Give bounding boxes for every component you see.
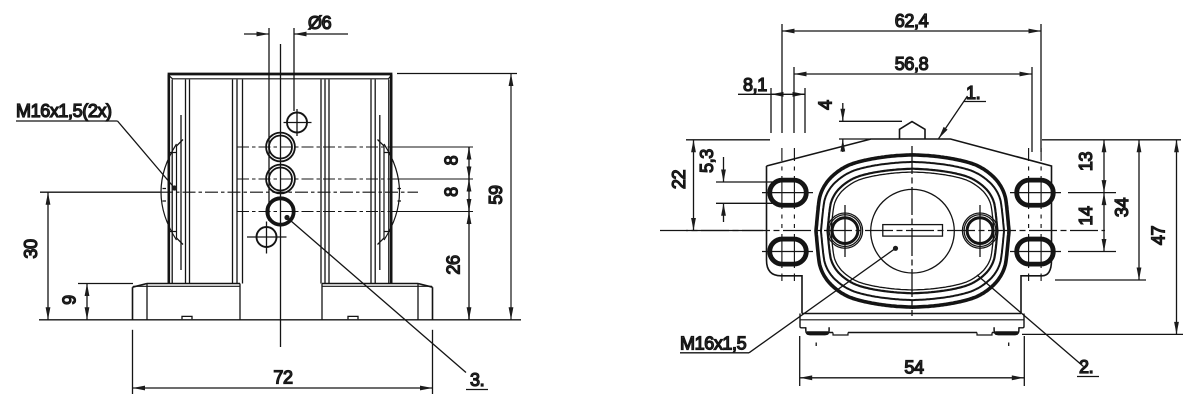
left boss steps	[163, 140, 184, 245]
flange right chamfer	[418, 284, 433, 288]
top tab	[900, 122, 926, 139]
dim 47 bottom extension	[1022, 333, 1183, 335]
body outline top	[168, 73, 393, 76]
svg-text:14: 14	[1076, 206, 1096, 226]
dim 14 line	[1103, 193, 1105, 252]
corner holes horizontal centerline top	[762, 192, 1061, 194]
flange left chamfer	[133, 284, 148, 288]
corner hole TL outer	[769, 179, 808, 206]
label M16x1,5(2x) leader dot	[172, 185, 177, 190]
corner holes vertical centerlines left	[782, 148, 795, 281]
foot left	[806, 327, 829, 334]
dim 13 line	[1103, 140, 1105, 193]
right boss arc	[384, 144, 400, 240]
label 2 leader	[977, 275, 1084, 367]
label 3 leader dot	[284, 215, 289, 220]
base notch right	[977, 333, 992, 336]
small circle bottom-left crosshair	[247, 222, 287, 254]
right column inner lines	[371, 80, 389, 284]
dim 22 top extension	[686, 139, 770, 141]
dia6 right extension line	[293, 28, 295, 111]
body top inner line	[169, 76, 391, 79]
svg-text:30: 30	[21, 239, 41, 259]
label 3 underline	[466, 389, 488, 391]
left boss chord	[176, 146, 178, 238]
circle C3 thick	[267, 198, 293, 224]
base left edge	[800, 314, 806, 328]
gasket ring outer	[816, 155, 1009, 307]
dim arrows at 147	[468, 147, 470, 160]
flange plate outline	[767, 139, 1052, 314]
svg-text:5,3: 5,3	[697, 149, 717, 173]
flange top edge left block	[147, 283, 240, 285]
foot centerline ticks	[816, 343, 1009, 347]
svg-text:13: 13	[1076, 152, 1096, 172]
dim 56,8 right extension	[1031, 67, 1033, 152]
dim 56,8 left extension	[793, 67, 795, 133]
dim 54 right extension	[1023, 336, 1025, 386]
dim 72 left extension	[132, 330, 134, 394]
svg-text:M16x1,5(2x): M16x1,5(2x)	[16, 101, 112, 121]
main vertical centerline	[911, 146, 913, 316]
svg-text:34: 34	[1112, 198, 1132, 218]
left boss base edge	[180, 115, 182, 270]
dim 4 line lower arrow	[842, 139, 844, 152]
flange top edge right block	[322, 283, 418, 285]
foot right	[994, 327, 1019, 334]
flange top inner line right	[322, 285, 432, 287]
port right circles	[962, 213, 997, 248]
flange right inner vertical	[417, 284, 419, 320]
dia6 dimension line right part	[294, 33, 348, 35]
gasket ring 3	[828, 169, 998, 294]
dim 8,1 extensions	[771, 88, 805, 133]
flange left inner vertical	[146, 284, 148, 320]
dim 34 bottom extension	[1055, 279, 1146, 281]
base notch left	[833, 333, 848, 336]
dim 22 line	[693, 140, 695, 231]
port left circles	[827, 213, 862, 248]
dim 4 face extension	[839, 138, 871, 140]
corner hole TR outer	[1016, 179, 1055, 206]
hole c3 centerline	[237, 211, 394, 213]
right boss base edge	[379, 115, 381, 270]
dim 22 bottom extension	[686, 230, 763, 232]
part centerline dashed through body	[160, 191, 418, 193]
base block top line	[802, 313, 1021, 315]
gasket ring 4	[831, 172, 994, 290]
small circle top-right	[287, 113, 307, 133]
dim arrows at 179	[468, 166, 470, 179]
dia6 left extension line	[268, 28, 270, 221]
dim 4 line upper arrow	[842, 103, 844, 121]
body left outer edge	[168, 75, 171, 284]
svg-text:8: 8	[442, 187, 462, 197]
right boss chord	[383, 146, 385, 238]
corner hole TR inner	[1018, 181, 1052, 204]
small circle top-right crosshair	[284, 109, 312, 136]
flange channel wall right	[321, 284, 323, 320]
right boss steps	[378, 140, 402, 245]
port left vertical crosshair	[844, 205, 846, 257]
flange foot notch right	[348, 316, 358, 319]
svg-text:2.: 2.	[1079, 357, 1093, 377]
port right vertical crosshair	[979, 205, 981, 257]
svg-text:59: 59	[486, 185, 506, 205]
dim 9 extension line	[78, 283, 133, 285]
corner holes vertical centerlines right	[1029, 148, 1042, 281]
dim 30 line	[47, 192, 49, 320]
hole c1 centerline	[237, 146, 394, 148]
base second line	[800, 319, 1024, 321]
dim 54 left extension	[799, 336, 801, 386]
circle C1 outer	[266, 133, 295, 162]
circle C2 inner	[269, 168, 292, 191]
base right edge	[1019, 314, 1024, 328]
base bottom between feet	[829, 332, 994, 334]
svg-text:54: 54	[904, 358, 924, 378]
flange right outer edge	[432, 287, 434, 319]
dim 72 right extension	[432, 330, 434, 394]
dim 5,3 line upper arrow	[723, 157, 725, 182]
label M16x1,5 underline	[680, 352, 749, 354]
bore slot	[883, 225, 943, 237]
dim 56,8 line	[794, 73, 1032, 75]
flange foot notch left	[182, 316, 192, 319]
dim 5,3 extensions	[716, 182, 780, 203]
svg-text:62,4: 62,4	[895, 11, 929, 31]
gasket ring 2	[821, 162, 1004, 300]
dim 59 top extension	[397, 73, 517, 75]
right top face extension	[1042, 139, 1181, 141]
svg-text:56,8: 56,8	[895, 54, 929, 74]
corner hole BL outer	[769, 238, 808, 265]
dim 62,4 left extension	[781, 24, 783, 133]
dim arrow at baseline	[468, 307, 470, 320]
center bore circle	[871, 189, 955, 273]
dia6 dimension line left part	[244, 33, 269, 35]
left column inner lines	[172, 80, 189, 284]
dim 62,4 line	[782, 30, 1041, 32]
dim 8 8 26 shared line	[468, 147, 470, 320]
svg-text:M16x1,5: M16x1,5	[680, 334, 747, 354]
flange channel wall left	[239, 284, 241, 320]
main horizontal centerline	[660, 230, 1105, 232]
svg-text:72: 72	[273, 368, 293, 388]
corner hole BL inner	[771, 240, 805, 263]
dim 8,1 tail and line	[738, 93, 771, 95]
label 3 leader line	[287, 218, 466, 373]
svg-text:8,1: 8,1	[743, 75, 767, 95]
part centerline	[40, 191, 160, 193]
dim 59 line	[510, 74, 512, 320]
label M16x1,5 leader	[749, 248, 896, 352]
dim 54 line	[800, 377, 1025, 379]
dim 47 line	[1176, 140, 1178, 335]
svg-text:22: 22	[669, 170, 689, 190]
flange top inner line left	[133, 285, 240, 287]
label M16x1,5(2x) leader	[118, 121, 175, 188]
dim arrows at 211.5	[468, 199, 470, 212]
dim 72 line	[133, 387, 433, 389]
dim 5,3 line lower arrow	[723, 203, 725, 222]
hole c2 centerline	[237, 178, 394, 180]
svg-text:4: 4	[816, 100, 836, 110]
dim 62,4 right extension	[1040, 24, 1042, 152]
baseline	[39, 319, 521, 321]
dim 34 line	[1138, 140, 1140, 280]
svg-text:26: 26	[444, 255, 464, 275]
center web right edge lines	[321, 80, 329, 284]
corner hole TL inner	[771, 181, 805, 204]
flange left outer edge	[132, 287, 134, 319]
left boss arc	[161, 144, 177, 240]
small circle bottom-left	[257, 227, 277, 247]
dim 13 bottom extension	[1068, 192, 1116, 194]
label 2 underline	[1077, 376, 1099, 378]
dim 4 apex extension	[839, 120, 902, 122]
center web left edge lines	[233, 80, 243, 284]
corner hole BR outer	[1016, 238, 1055, 265]
corner holes horizontal centerline bottom	[762, 251, 1061, 253]
center vertical line	[280, 44, 282, 347]
dim 14 bottom extension	[1068, 251, 1116, 253]
circle C2 outer	[266, 165, 295, 194]
label 1 leader	[939, 96, 968, 139]
circle C1 inner	[269, 136, 292, 159]
corner hole BR inner	[1018, 240, 1052, 263]
svg-text:Ø6: Ø6	[308, 13, 332, 33]
label M16x1,5 leader dot	[893, 246, 898, 251]
svg-text:1.: 1.	[966, 83, 980, 103]
svg-text:47: 47	[1149, 226, 1169, 246]
label M16x1,5(2x) underline	[16, 120, 118, 122]
label 1 underline	[964, 101, 986, 103]
svg-text:9: 9	[60, 295, 80, 305]
svg-text:8: 8	[442, 155, 462, 165]
body right outer edge	[390, 75, 393, 284]
svg-text:3.: 3.	[470, 370, 484, 390]
dim 9 line	[86, 284, 88, 320]
